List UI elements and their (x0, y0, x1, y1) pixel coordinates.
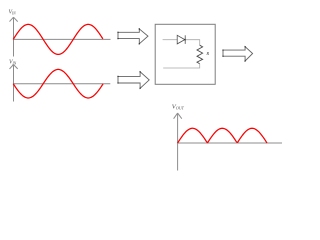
output plot vertical axis (174, 113, 182, 170)
block arrow 1 (top input to circuit) (117, 28, 148, 44)
svg-text:VIN: VIN (9, 9, 17, 15)
output plot horizontal axis (177, 142, 282, 144)
top plot horizontal axis (13, 38, 111, 40)
circuit box (155, 24, 215, 84)
svg-text:R: R (205, 51, 209, 56)
block arrow 3 (circuit to output plot) (222, 46, 252, 62)
diode D1 (177, 35, 185, 44)
wire sine wave V_IN (in phase) (13, 24, 103, 54)
resistor R (197, 45, 203, 64)
wire sine wave V_IN inverted (180 deg out of phase) (13, 69, 103, 98)
block arrow 2 (bottom input to circuit) (117, 71, 149, 89)
bottom input plot horizontal axis (13, 83, 110, 85)
wire resistor to bottom return (163, 64, 200, 68)
top plot vertical axis (10, 17, 18, 56)
bottom input plot vertical axis (10, 65, 18, 102)
wire top input lead (163, 39, 178, 41)
node diode cathode junction (184, 39, 185, 40)
wire full-wave rectified output V_OUT (178, 128, 267, 143)
wire diode to resistor (186, 40, 200, 46)
svg-text:VOUT: VOUT (172, 104, 185, 111)
